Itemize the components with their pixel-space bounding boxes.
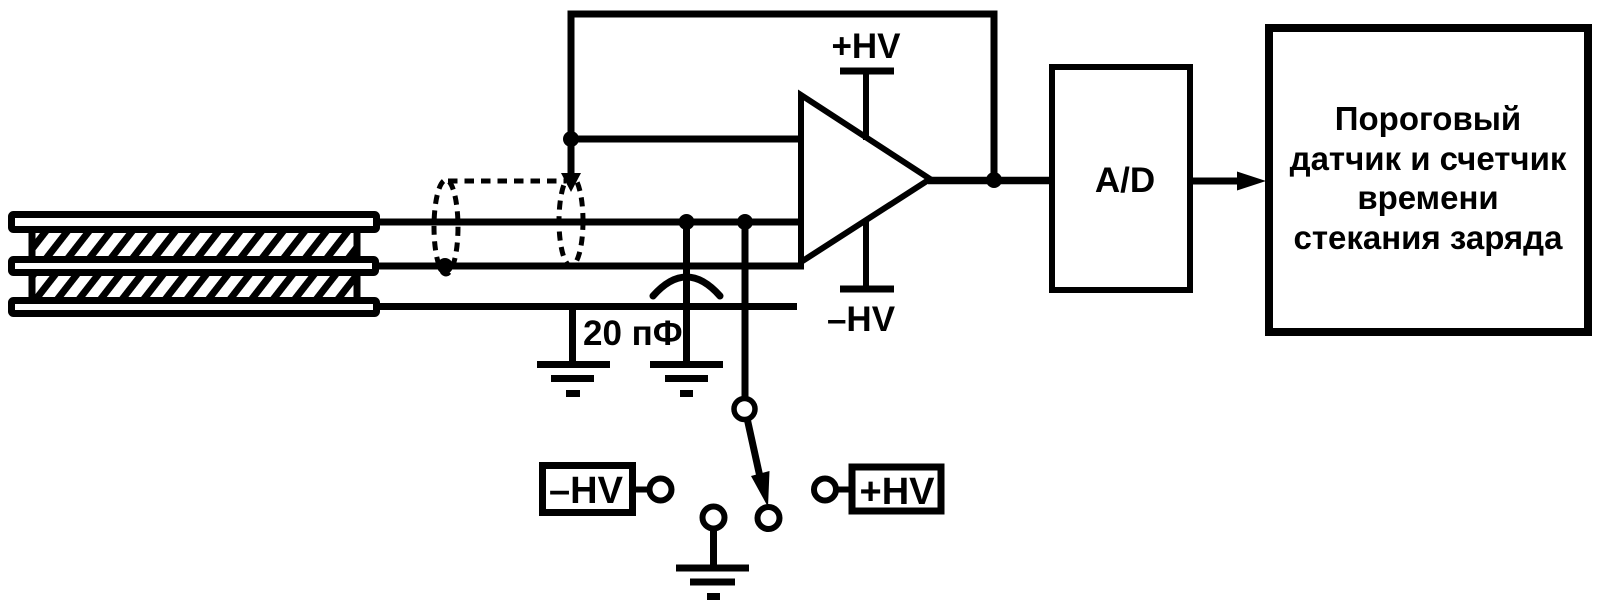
switch SW1 throw contact middle (to ground) xyxy=(703,507,725,529)
junction dot at op-amp output xyxy=(986,172,1002,188)
sensor dielectric layer 1 (hatched) xyxy=(32,233,357,256)
wire: W1 to switch pivot xyxy=(742,222,749,399)
+HV contact circle xyxy=(814,479,836,501)
switch SW1 throw contact right xyxy=(758,507,780,529)
ground GND2 xyxy=(650,365,723,394)
wire: feedback branch to op-amp non-inverting input xyxy=(571,136,801,143)
-HV contact circle xyxy=(650,479,672,501)
-HV supply rail of op-amp xyxy=(827,220,896,339)
switch SW1 blade with arrow xyxy=(747,418,770,507)
wire W2: middle plate to op-amp lower corner xyxy=(374,263,804,270)
svg-text:стекания заряда: стекания заряда xyxy=(1294,219,1564,256)
svg-text:времени: времени xyxy=(1357,179,1498,216)
svg-text:Пороговый: Пороговый xyxy=(1335,100,1521,137)
sensor plate middle (electrode 2) xyxy=(12,260,376,273)
+HV supply rail of op-amp xyxy=(831,27,901,140)
cable shield right ellipse (dashed) xyxy=(559,176,583,266)
ground GND3 xyxy=(676,568,749,597)
op-amp U1 triangle xyxy=(801,95,930,262)
svg-text:–HV: –HV xyxy=(827,300,896,339)
wire: -HV box to contact xyxy=(633,487,650,493)
cable shield top dashed line xyxy=(448,179,566,184)
+HV source box xyxy=(852,467,941,513)
cable shield left ellipse (dashed) xyxy=(434,180,458,274)
sensor plate top (electrode 1) xyxy=(12,215,377,230)
capacitor C1 lead: W1 to ground xyxy=(683,222,690,362)
svg-text:20 пФ: 20 пФ xyxy=(583,314,683,353)
svg-text:датчик и счетчик: датчик и счетчик xyxy=(1290,140,1567,177)
junction dot on feedback branch xyxy=(563,131,579,147)
junction dot W1 / switch branch xyxy=(737,214,753,230)
sensor plate bottom (electrode 3) xyxy=(12,301,377,314)
wire: W3 to ground xyxy=(569,306,576,362)
wire W3: bottom plate guard line xyxy=(374,303,797,310)
A/D converter block xyxy=(1052,67,1190,290)
junction dot W1 / capacitor branch xyxy=(679,214,695,230)
svg-text:A/D: A/D xyxy=(1095,161,1155,200)
-HV source box xyxy=(543,466,633,513)
capacitor C1 curved plate (20 pF) xyxy=(653,277,720,296)
ground GND1 xyxy=(537,365,610,394)
junction blob: shield top to feedback branch xyxy=(561,173,581,192)
switch SW1 pivot contact xyxy=(734,399,755,420)
wire: contact to +HV box xyxy=(836,487,852,493)
junction dot: shield to wire W2 xyxy=(437,258,453,274)
svg-text:+HV: +HV xyxy=(860,471,936,513)
wire: op-amp output to A/D xyxy=(928,177,1052,185)
arrow: A/D to threshold block xyxy=(1190,172,1266,191)
wire W1: top plate to op-amp inverting input xyxy=(374,219,801,226)
threshold detector block xyxy=(1269,28,1588,332)
svg-text:–HV: –HV xyxy=(549,470,624,512)
wire: middle contact to ground xyxy=(710,528,717,565)
svg-text:+HV: +HV xyxy=(831,27,901,66)
feedback wire loop (output to shield) xyxy=(571,14,994,184)
sensor dielectric layer 2 (hatched) xyxy=(32,276,357,297)
